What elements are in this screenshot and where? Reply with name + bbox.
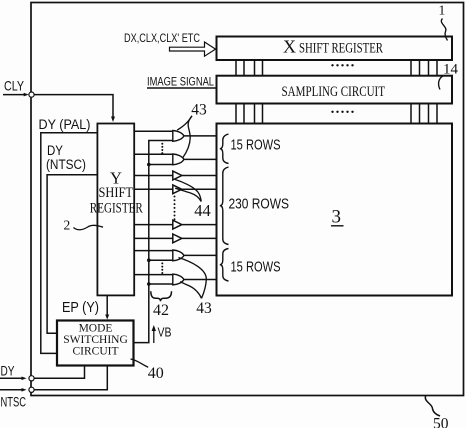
- label 42 with brace: [151, 291, 172, 319]
- EP wire with arrow: [106, 295, 108, 315]
- buffer G5: [173, 220, 182, 229]
- image signal wire: [147, 87, 217, 89]
- svg-text:DY: DY: [1, 363, 15, 379]
- ellipsis dots rows 7-8: [161, 262, 163, 274]
- label 2: [64, 218, 104, 233]
- svg-text:MODE: MODE: [79, 322, 113, 334]
- svg-text:3: 3: [332, 207, 342, 228]
- CLY wire to Y shift register: [34, 95, 113, 117]
- gate G1: [173, 131, 184, 142]
- svg-text:EP (Y): EP (Y): [62, 300, 99, 316]
- DY input arrow: [0, 377, 23, 379]
- block arrow into X shift register: [170, 42, 216, 56]
- svg-text:14: 14: [443, 62, 459, 78]
- ellipsis dots rows 4-5: [174, 196, 176, 221]
- svg-text:DY: DY: [47, 143, 63, 158]
- junction row 7: [147, 258, 151, 262]
- DY wire into mode switching circuit: [34, 366, 84, 379]
- svg-text:44: 44: [194, 201, 211, 220]
- VB label with arrow: [152, 325, 172, 343]
- sampling circuit box 14: [217, 76, 453, 104]
- gate G7: [173, 250, 184, 261]
- mode switching circuit box 40: [57, 321, 134, 366]
- bus wires between X shift register and sampling circuit: [236, 60, 437, 76]
- ellipsis dots above matrix: [331, 111, 353, 113]
- svg-text:DY (PAL): DY (PAL): [39, 117, 91, 132]
- brace 230 rows: [220, 167, 229, 245]
- svg-text:15 ROWS: 15 ROWS: [231, 259, 281, 276]
- svg-text:VB: VB: [158, 325, 172, 340]
- junction row 2: [147, 163, 151, 167]
- CLY input arrow: [3, 94, 25, 96]
- row input wires from Y shift register: [134, 131, 173, 274]
- matrix box 3: [217, 124, 453, 296]
- svg-text:SAMPLING CIRCUIT: SAMPLING CIRCUIT: [282, 84, 386, 100]
- gate G2: [173, 154, 184, 165]
- svg-text:43: 43: [191, 102, 207, 119]
- svg-text:15 ROWS: 15 ROWS: [231, 137, 281, 154]
- svg-text:REGISTER: REGISTER: [90, 201, 143, 217]
- svg-text:DX,CLX,CLX' ETC: DX,CLX,CLX' ETC: [124, 33, 200, 45]
- CLY terminal node: [29, 92, 34, 97]
- ellipsis dots rows 1-2: [161, 143, 163, 154]
- label 44: [175, 180, 211, 221]
- label 40: [131, 359, 164, 382]
- svg-text:SWITCHING: SWITCHING: [63, 334, 128, 346]
- VB stub to gate row 8: [149, 283, 173, 285]
- DY (NTSC) wire: [47, 175, 97, 334]
- svg-text:X: X: [283, 37, 296, 57]
- svg-text:2: 2: [64, 218, 71, 233]
- Y shift register box 2: [90, 124, 143, 296]
- svg-text:IMAGE SIGNAL: IMAGE SIGNAL: [147, 77, 214, 89]
- label 1: [439, 3, 448, 41]
- gate G8: [173, 274, 184, 285]
- label 43 top: [177, 102, 207, 158]
- svg-text:(NTSC): (NTSC): [46, 157, 86, 172]
- label 43 bottom: [179, 258, 213, 317]
- label 50: [425, 396, 448, 428]
- svg-text:SHIFT: SHIFT: [99, 185, 134, 201]
- svg-text:43: 43: [196, 300, 212, 317]
- NTSC terminal node: [29, 387, 34, 392]
- VB stub to gate row 7: [149, 259, 173, 261]
- NTSC input arrow: [0, 389, 23, 391]
- NTSC wire into mode switching circuit: [34, 366, 107, 390]
- svg-text:CLY: CLY: [4, 78, 24, 94]
- label 14: [439, 62, 459, 90]
- svg-text:1: 1: [439, 3, 446, 18]
- svg-text:CIRCUIT: CIRCUIT: [73, 346, 119, 358]
- VB stub to gate row 2: [149, 164, 173, 166]
- X shift register box 1: [217, 37, 453, 61]
- svg-text:230 ROWS: 230 ROWS: [229, 196, 290, 213]
- buffer G3: [173, 171, 182, 180]
- brace 15 rows bottom: [220, 249, 229, 282]
- DY (PAL) wire: [41, 133, 98, 354]
- VB distribution wire: [134, 141, 173, 343]
- buffer G6: [173, 234, 182, 243]
- brace 15 rows top: [220, 134, 229, 164]
- junction row 8: [147, 282, 151, 286]
- DY terminal node: [29, 376, 34, 381]
- svg-text:NTSC: NTSC: [1, 393, 27, 409]
- buffer G4: [173, 185, 182, 194]
- svg-text:50: 50: [433, 416, 449, 428]
- svg-text:42: 42: [153, 302, 169, 319]
- bus wires between sampling circuit and matrix box: [236, 104, 437, 124]
- svg-text:40: 40: [148, 365, 164, 382]
- gate output wires to matrix: [182, 136, 217, 280]
- ellipsis dots between registers: [331, 64, 353, 66]
- svg-text:SHIFT REGISTER: SHIFT REGISTER: [299, 41, 383, 57]
